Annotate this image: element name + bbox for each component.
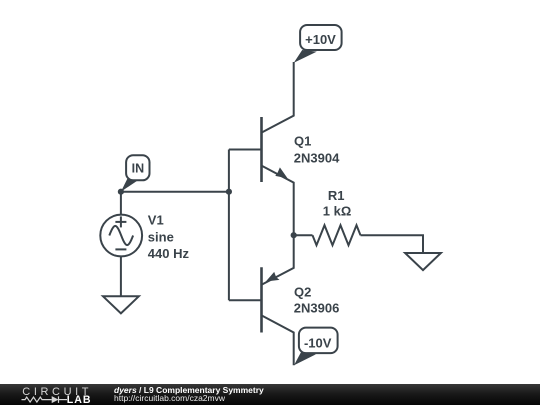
svg-text:R1: R1 [328,188,345,203]
svg-text:+10V: +10V [305,32,336,47]
svg-text:1 kΩ: 1 kΩ [323,204,352,219]
svg-text:sine: sine [148,229,174,244]
svg-text:2N3904: 2N3904 [294,151,340,166]
svg-text:Q2: Q2 [294,285,311,300]
svg-text:440 Hz: 440 Hz [148,246,190,261]
svg-text:-10V: -10V [304,335,332,350]
svg-text:LAB: LAB [67,394,92,405]
svg-text:IN: IN [132,161,145,175]
svg-text:Q1: Q1 [294,134,311,149]
svg-text:V1: V1 [148,213,164,228]
svg-text:2N3906: 2N3906 [294,301,340,316]
